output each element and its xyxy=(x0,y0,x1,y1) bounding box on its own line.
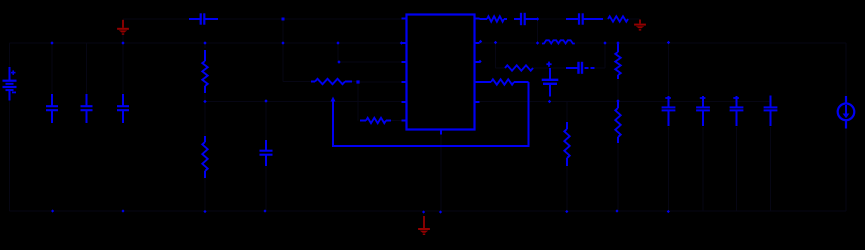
node pin arrow U1 right y43 xyxy=(479,40,482,43)
wire C3 top drop xyxy=(122,35,124,95)
capacitor C2 xyxy=(86,94,88,106)
battery V1 xyxy=(9,67,11,81)
capacitor C5 xyxy=(265,140,267,151)
wire corner x358 down to R4 xyxy=(357,82,359,121)
capacitor C10 xyxy=(668,96,670,107)
wire C5 to bus xyxy=(265,166,267,211)
node junction rail43 x52 xyxy=(50,41,53,44)
wire x495 drop xyxy=(495,43,497,68)
wire x338 drop xyxy=(337,43,339,62)
node junction rail43 x123 xyxy=(121,41,124,44)
wire FB rail right (y=101.5) xyxy=(480,101,771,103)
node junction x339 y62 xyxy=(337,60,340,63)
op-amp U1 xyxy=(407,15,475,130)
node corner x358 y82 xyxy=(356,80,359,83)
wire C1 top drop xyxy=(51,43,53,94)
capacitor C7 xyxy=(566,67,579,69)
node pin arrow U1 pin y43 xyxy=(400,41,404,45)
node junction x550 y101.5 xyxy=(548,100,551,103)
capacitor C12 xyxy=(736,96,738,107)
node pin arrow U1 right y62 xyxy=(478,60,481,63)
wire y68 row mid xyxy=(533,67,566,69)
capacitor C11 xyxy=(702,96,704,107)
resistor R4 xyxy=(360,120,366,122)
wire R1 divider stem xyxy=(204,43,206,48)
wire feedback loop xyxy=(333,82,529,146)
wire input rail (y=19) ground to U1 xyxy=(123,18,402,20)
node junction bus x441 xyxy=(439,210,442,213)
wire U1 bottom pin to bus xyxy=(440,135,442,212)
resistor R3 xyxy=(311,81,315,83)
node junction x266 y101 xyxy=(264,99,267,102)
capacitor C4 xyxy=(189,18,201,20)
wire R11 to bus xyxy=(566,166,568,211)
node junction rail43 x668 xyxy=(667,41,670,44)
wire y19 right row gap xyxy=(538,18,567,20)
wire top rail VIN (y=43) battery to U1 pin xyxy=(10,42,403,44)
ground GND1 xyxy=(122,20,124,28)
resistor R5 xyxy=(480,81,492,83)
node junction bus x265 xyxy=(263,209,266,212)
resistor R7 xyxy=(480,18,488,20)
node junction bus x567 xyxy=(565,210,568,213)
node junction rail43 x618 xyxy=(616,41,619,44)
node junction rail19 x537 xyxy=(536,17,539,20)
wire R3 to corner xyxy=(352,81,358,83)
wire C2 top drop xyxy=(86,43,88,94)
wire C13 to bus xyxy=(770,127,772,211)
node junction bus x52 xyxy=(51,209,54,212)
wire battery negative drop xyxy=(9,101,11,212)
wire x668 drop xyxy=(668,43,670,102)
resistor R1 xyxy=(204,50,206,61)
resistor R6 xyxy=(505,65,533,70)
wire C10 to bus xyxy=(668,127,670,211)
wire R4 to U1 pin xyxy=(391,120,402,122)
wire x537 drop xyxy=(537,19,539,43)
capacitor C1 xyxy=(51,94,53,106)
wire ground bus (y=211) xyxy=(10,210,847,212)
capacitor C9 xyxy=(566,18,579,20)
node junction x205 y101.5 xyxy=(203,100,206,103)
wire battery positive riser xyxy=(9,43,11,67)
capacitor C3 xyxy=(122,94,124,106)
wire node FB rail left (y=101.5) xyxy=(205,101,402,103)
capacitor C8 xyxy=(514,18,521,20)
pin ticks U1 xyxy=(402,18,407,20)
wire R2 to bus xyxy=(204,178,206,211)
wire R1-R2 mid links xyxy=(204,93,206,102)
wire C4 output drop x=283 xyxy=(282,19,284,43)
node junction bus x423 xyxy=(422,210,425,213)
ground GND3 xyxy=(423,216,425,228)
wire R10 to bus xyxy=(617,143,619,211)
wire y68 row right xyxy=(595,67,605,69)
node junction rail43 x338 xyxy=(336,41,339,44)
wire x358 to U1 pin y82 xyxy=(358,81,402,83)
wire x283 drop to R3 xyxy=(282,43,284,82)
node junction x618 y101 xyxy=(616,99,619,102)
wire y62 to U1 pin xyxy=(338,61,402,63)
node junction bus x123 xyxy=(121,209,124,212)
wire C11 to bus xyxy=(702,127,704,211)
probe J1 output xyxy=(845,96,847,104)
resistor R2 xyxy=(204,136,206,142)
wire output rail drop to probe xyxy=(845,43,847,96)
node junction rail43 x605 xyxy=(603,41,606,44)
node junction rail43 x537 xyxy=(536,41,539,44)
capacitor C13 xyxy=(770,96,772,108)
wire R8 leads xyxy=(603,18,608,20)
wire x605 riser xyxy=(604,43,606,68)
ground GND2 xyxy=(639,20,641,24)
wire C5 top link xyxy=(265,101,267,140)
resistor R10 xyxy=(617,102,619,108)
resistor R8 xyxy=(608,16,628,21)
resistor R11 xyxy=(566,122,568,129)
node junction bus x668 xyxy=(667,210,670,213)
capacitor C6 xyxy=(549,68,551,80)
node junction bus x617 xyxy=(615,209,618,212)
node junction bus x205 xyxy=(203,210,206,213)
resistor R9 xyxy=(617,44,619,52)
wire R9 tail xyxy=(617,79,619,101)
node junction rail43 x283 xyxy=(281,41,284,44)
node junction rail43 x205 xyxy=(203,41,206,44)
node junction rail43 x495 xyxy=(494,41,497,44)
wire C12 to bus xyxy=(736,127,738,211)
wire R11 top link xyxy=(566,102,568,123)
wire output rail (y=43) right xyxy=(480,42,847,44)
wire probe to bus xyxy=(845,129,847,212)
inductor L1 xyxy=(542,40,575,43)
node corner x283 y19 xyxy=(282,18,285,21)
